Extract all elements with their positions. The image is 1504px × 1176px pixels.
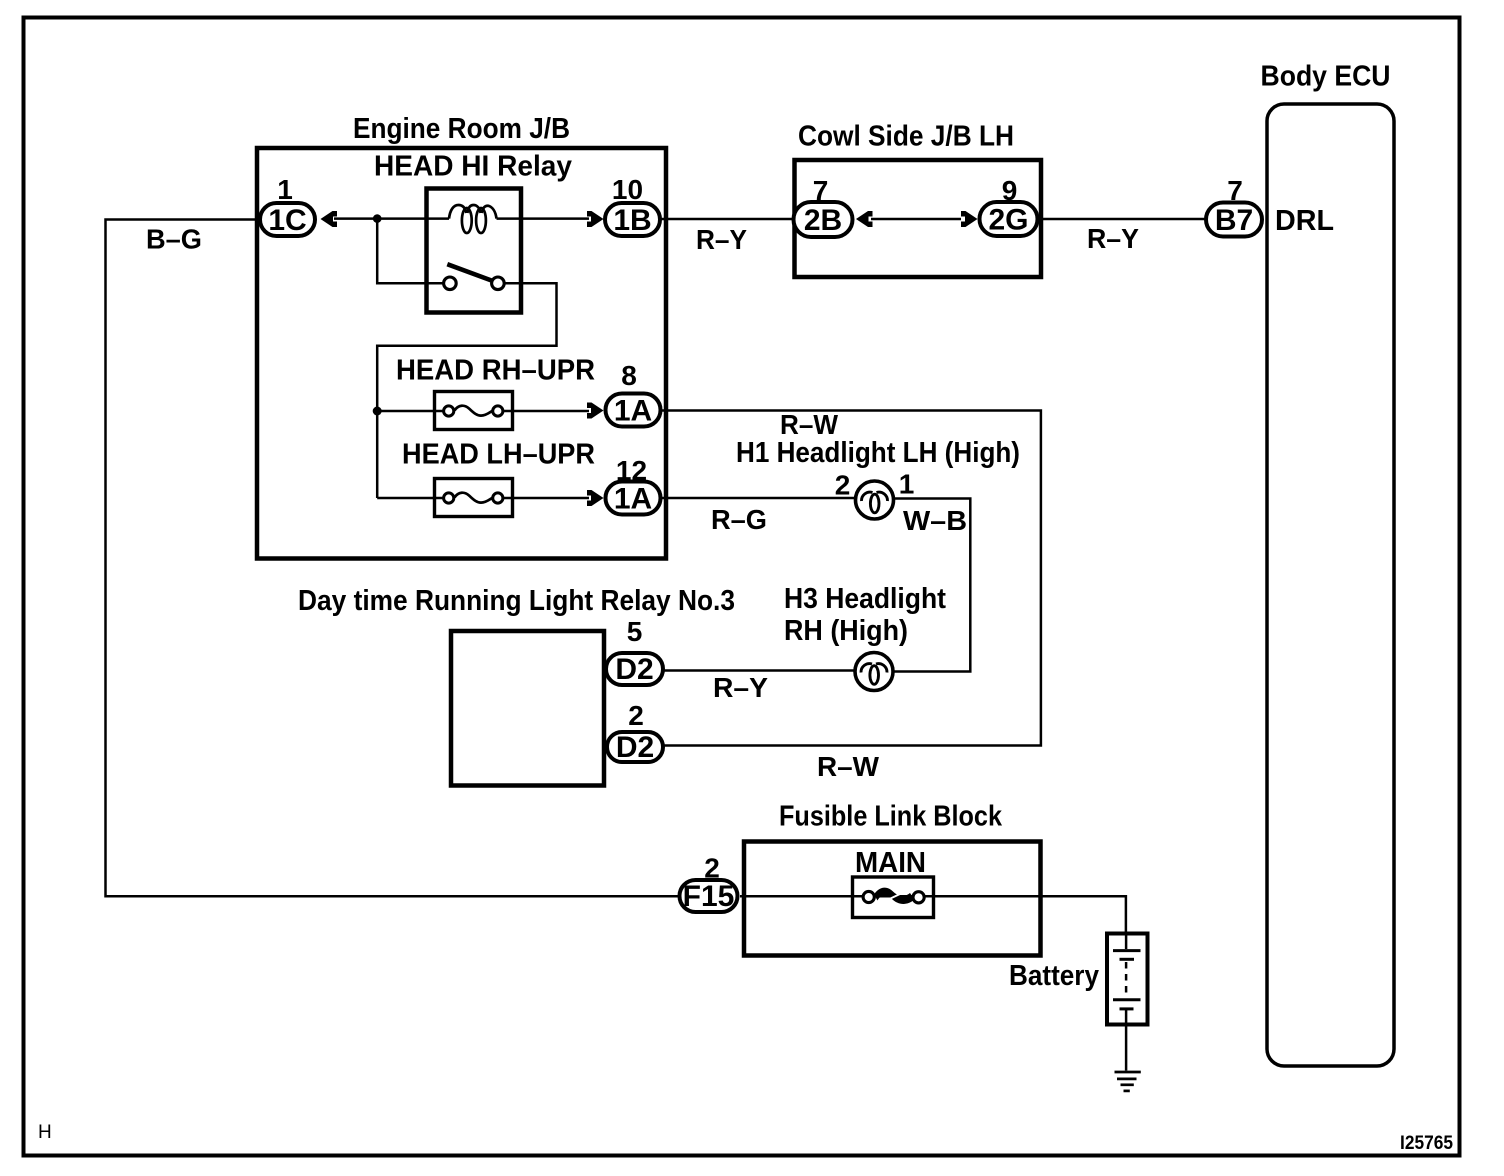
svg-text:D2: D2 [615, 653, 653, 686]
wire F15 through MAIN fuse to battery [740, 896, 1126, 933]
svg-text:DRL: DRL [1275, 205, 1334, 237]
Engine Room J/B box [257, 148, 666, 559]
svg-text:MAIN: MAIN [855, 847, 926, 879]
wire to fuse HEAD RH-UPR [377, 410, 442, 413]
relay switch blade [447, 264, 491, 280]
arrow into 1C [321, 211, 338, 227]
svg-text:R–G: R–G [711, 504, 767, 535]
fuse element MAIN fusible link [863, 888, 924, 904]
fuse HEAD LH-UPR box [435, 479, 513, 517]
battery [1107, 934, 1148, 1027]
Day time Running Light Relay No.3 box [451, 631, 604, 786]
Fusible Link Block box [744, 842, 1041, 956]
wire 1B to Cowl box (R-Y) [661, 218, 796, 221]
svg-text:7: 7 [1227, 175, 1243, 206]
svg-text:R–Y: R–Y [696, 224, 747, 255]
svg-text:D2: D2 [616, 731, 654, 764]
svg-text:Cowl Side J/B LH: Cowl Side J/B LH [798, 121, 1014, 153]
svg-text:1A: 1A [614, 395, 652, 428]
node junction at coil wire [373, 214, 382, 223]
svg-text:R–Y: R–Y [1087, 223, 1139, 254]
wire 1C arrow to coil [334, 217, 449, 220]
svg-text:B7: B7 [1215, 204, 1253, 237]
bulb H3 Headlight RH (High) [855, 653, 893, 691]
arrow into 1B [587, 211, 604, 227]
connector 1A pin12 [606, 482, 661, 515]
svg-text:HEAD HI Relay: HEAD HI Relay [374, 151, 572, 183]
svg-text:1B: 1B [613, 204, 651, 237]
svg-text:2B: 2B [804, 204, 842, 237]
connector D2 pin2 [607, 732, 663, 762]
svg-text:1: 1 [899, 469, 915, 500]
ground [1115, 1072, 1141, 1091]
wire W-B from H1 bulb down to H3 bulb [892, 499, 970, 672]
svg-text:R–W: R–W [817, 751, 880, 782]
svg-text:HEAD RH–UPR: HEAD RH–UPR [396, 355, 595, 387]
bulb H1 Headlight LH (High) [856, 481, 894, 519]
wire B-G from 1C left down to F15 [106, 220, 680, 897]
wire R-W from 1A pin8 right and down to D2 pin2 [661, 411, 1041, 746]
svg-text:H3 Headlight: H3 Headlight [784, 583, 946, 615]
svg-text:8: 8 [621, 360, 637, 391]
wire 2G to B7 (R-Y) [1040, 218, 1205, 221]
svg-text:9: 9 [1002, 175, 1018, 206]
arrow into 2G [961, 211, 978, 227]
arrow into 1A pin8 [587, 403, 604, 419]
svg-text:Body ECU: Body ECU [1261, 61, 1391, 93]
relay coil [449, 205, 497, 233]
relay HEAD HI Relay box [427, 189, 522, 313]
svg-text:R–W: R–W [780, 409, 839, 440]
connector B7 [1206, 203, 1262, 237]
svg-text:2: 2 [704, 853, 720, 884]
svg-text:W–B: W–B [903, 505, 967, 536]
relay switch contact left [444, 277, 457, 290]
fuse element HEAD RH-UPR [444, 406, 503, 416]
relay switch contact right [492, 277, 505, 290]
wire R-G from 1A pin12 to H1 bulb [661, 497, 857, 500]
svg-text:Fusible Link Block: Fusible Link Block [779, 801, 1003, 833]
wire 2B arrow to 2G arrow [871, 218, 961, 221]
connector 1B [605, 203, 660, 236]
connector 2B [794, 202, 853, 237]
svg-text:7: 7 [813, 175, 829, 206]
svg-text:Battery: Battery [1009, 960, 1099, 992]
svg-text:12: 12 [616, 455, 647, 486]
fuse MAIN box [853, 877, 934, 918]
svg-text:H1 Headlight LH (High): H1 Headlight LH (High) [736, 437, 1020, 469]
wire fuse RH to 1A arrow [504, 410, 590, 413]
svg-text:Day time Running Light Relay N: Day time Running Light Relay No.3 [298, 585, 735, 617]
wire battery to ground [1125, 1026, 1128, 1071]
svg-text:1A: 1A [614, 483, 652, 516]
svg-text:5: 5 [627, 616, 643, 647]
svg-text:F15: F15 [683, 880, 735, 913]
wire R-Y from H3 bulb to D2 pin5 [665, 669, 857, 672]
connector D2 pin5 [606, 653, 663, 685]
svg-text:R–Y: R–Y [713, 672, 768, 703]
svg-text:HEAD LH–UPR: HEAD LH–UPR [402, 439, 595, 471]
node junction at fuse branch [373, 407, 382, 416]
connector 2G [980, 202, 1038, 236]
connector 1A pin8 [606, 394, 661, 427]
arrow into 2B [856, 211, 873, 227]
wire coil to 1B arrow [497, 217, 590, 220]
svg-text:B–G: B–G [146, 224, 202, 255]
svg-text:1: 1 [277, 174, 293, 205]
arrow into 1A pin12 [587, 490, 604, 506]
Body ECU box [1267, 104, 1394, 1066]
wire junction A down to switch [377, 219, 443, 284]
connector F15 [680, 880, 738, 912]
svg-text:2: 2 [835, 470, 851, 501]
svg-text:1C: 1C [268, 204, 306, 237]
svg-text:H: H [38, 1122, 52, 1143]
svg-text:10: 10 [612, 174, 643, 205]
wire fuse LH to 1A arrow [504, 497, 590, 500]
wire to fuse HEAD LH-UPR [377, 497, 442, 500]
svg-text:2G: 2G [988, 204, 1028, 237]
svg-text:Engine Room J/B: Engine Room J/B [353, 113, 570, 145]
svg-text:I25765: I25765 [1400, 1133, 1453, 1154]
svg-text:RH (High): RH (High) [784, 615, 908, 647]
wire switch output loop to fuses [377, 283, 556, 498]
fuse HEAD RH-UPR box [435, 392, 513, 430]
Cowl Side J/B LH box [795, 160, 1042, 277]
connector 1C [260, 203, 315, 236]
svg-text:2: 2 [628, 700, 644, 731]
fuse element HEAD LH-UPR [444, 493, 503, 503]
